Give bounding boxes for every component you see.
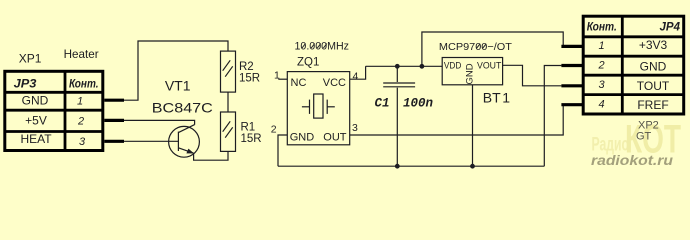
svg-text:C1: C1: [375, 97, 390, 111]
transistor Q1 VT1 BC847C: [169, 125, 200, 158]
junction dot top-rail tap: [420, 64, 425, 69]
connector XP1 table: [5, 71, 103, 151]
XP1 pin 1 stub: [104, 99, 124, 102]
svg-text:R1: R1: [241, 121, 256, 133]
svg-text:OUT: OUT: [323, 132, 347, 144]
wire BT1 GND pin to ground rail: [472, 85, 474, 166]
connector XP2 JP4 table: [583, 16, 684, 114]
svg-text:3: 3: [79, 136, 86, 148]
XP1 pin 3 stub: [104, 140, 124, 143]
svg-text:JP3: JP3: [14, 79, 37, 91]
svg-text:NC: NC: [291, 77, 307, 89]
+3V3 VDD rail: [366, 65, 443, 67]
svg-text:GND: GND: [290, 132, 315, 144]
ZQ1 pin 1 NC stub: [278, 78, 287, 80]
wire ZQ1 pin2 GND down to ground rail: [278, 135, 287, 166]
wire BT1 VOUT to JP4.3 TOUT: [503, 65, 562, 86]
ground rail: [278, 165, 544, 167]
svg-text:15R: 15R: [239, 72, 260, 84]
svg-text:+5V: +5V: [25, 114, 47, 128]
junction dot C1 top: [395, 64, 400, 69]
JP4 pin 1 stub: [561, 45, 583, 48]
JP4 pin 2 stub: [561, 64, 583, 67]
svg-text:2: 2: [271, 123, 277, 135]
svg-text:1: 1: [598, 40, 604, 52]
svg-text:MCP9700−/OT: MCP9700−/OT: [439, 41, 513, 53]
wire ZQ1 OUT pin3 to JP4.4 FREF: [350, 105, 564, 135]
junction dot C1 bottom: [395, 164, 400, 169]
svg-text:HEAT: HEAT: [20, 132, 52, 146]
svg-text:15R: 15R: [241, 133, 262, 145]
watermark: [591, 118, 681, 169]
resistor R2: [221, 51, 236, 92]
crystal symbol: [302, 94, 335, 118]
JP4 pin 4 stub: [561, 103, 583, 106]
resistor R1: [221, 112, 236, 151]
junction dot BT1 GND: [470, 164, 475, 169]
svg-text:100n: 100n: [403, 97, 433, 111]
slashed zeros of MCP9700: [477, 44, 487, 48]
svg-text:BT: BT: [483, 90, 501, 106]
svg-text:TOUT: TOUT: [637, 79, 670, 93]
svg-text:radiokot.ru: radiokot.ru: [591, 153, 674, 168]
svg-text:2: 2: [597, 59, 604, 71]
svg-text:1: 1: [77, 95, 83, 107]
svg-text:XP2: XP2: [638, 119, 659, 131]
wire +3V3 top rail to JP4.1: [422, 32, 563, 66]
svg-text:FREF: FREF: [637, 98, 668, 112]
svg-text:GT: GT: [636, 131, 652, 143]
wire ZQ1 pin4 VCC to +3V3 rail: [350, 66, 366, 79]
svg-text:Heater: Heater: [64, 47, 99, 61]
svg-text:R2: R2: [239, 61, 254, 73]
svg-text:3: 3: [352, 122, 358, 134]
wire R2 bottom to R1 top: [227, 92, 229, 112]
svg-text:2: 2: [77, 116, 84, 128]
capacitor C1: [383, 66, 415, 166]
svg-text:VCC: VCC: [323, 77, 346, 89]
wire HEAT net XP1.3 to VT1 base: [124, 140, 178, 142]
svg-text:VT1: VT1: [165, 77, 191, 93]
slashed zeros of 10.000MHz: [302, 44, 327, 49]
svg-text:GND: GND: [464, 63, 475, 84]
svg-text:ZQ1: ZQ1: [297, 56, 319, 68]
crystal oscillator ZQ1 box: [287, 72, 349, 145]
svg-text:Конт.: Конт.: [587, 22, 617, 34]
wire GND net XP1.1 to R2 top: [124, 41, 228, 100]
svg-text:GND: GND: [22, 93, 49, 107]
svg-text:4: 4: [598, 99, 604, 111]
svg-text:VDD: VDD: [444, 61, 462, 72]
wire VT1 emitter to R1 bottom: [194, 152, 228, 161]
wire JP4.2 GND down to ground rail: [544, 66, 561, 167]
wire +5V net XP1.2 to VT1 collector: [124, 120, 195, 124]
svg-text:GND: GND: [640, 60, 667, 74]
svg-text:4: 4: [353, 71, 359, 83]
XP1 pin 2 stub: [104, 119, 124, 122]
svg-text:JP4: JP4: [660, 22, 681, 34]
svg-text:+3V3: +3V3: [639, 38, 668, 52]
svg-text:3: 3: [598, 79, 605, 91]
JP4 pin 3 stub: [561, 84, 583, 87]
svg-text:XP1: XP1: [19, 52, 42, 66]
IC BT1 MCP9700 box: [442, 58, 502, 85]
svg-text:1: 1: [502, 90, 510, 106]
svg-text:VOUT: VOUT: [477, 61, 501, 72]
svg-text:Конт.: Конт.: [69, 79, 99, 91]
svg-text:BC847C: BC847C: [152, 100, 213, 116]
